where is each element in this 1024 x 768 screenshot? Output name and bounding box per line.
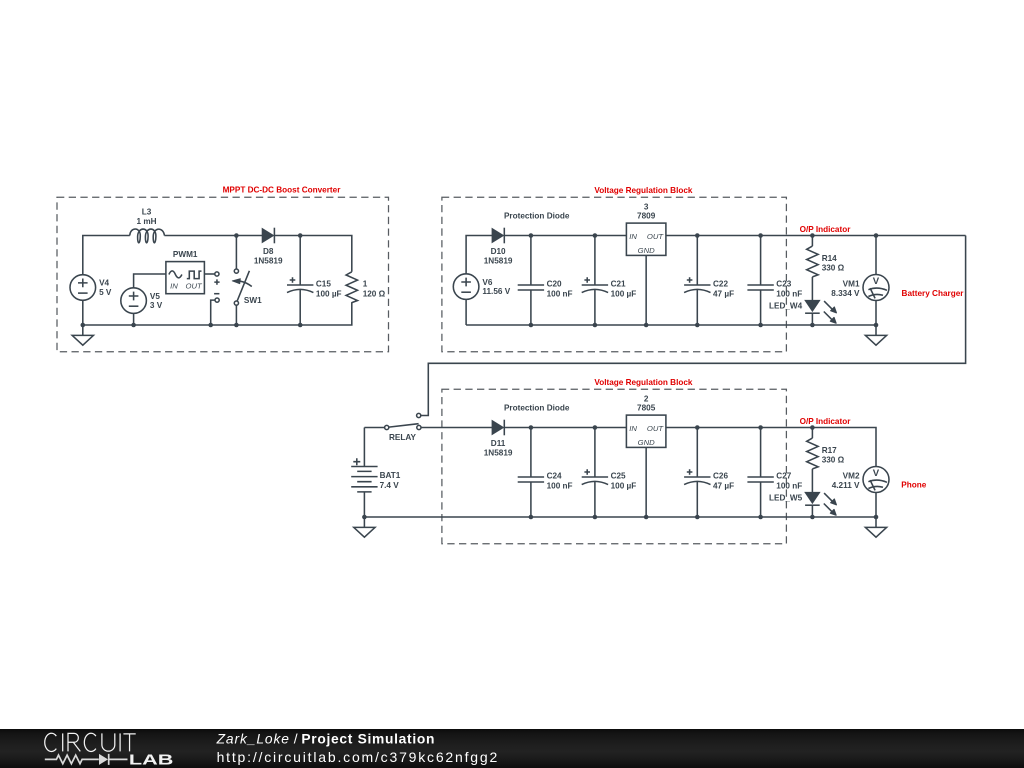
svg-text:120 Ω: 120 Ω bbox=[363, 289, 386, 298]
capacitor C15 bbox=[287, 236, 342, 326]
svg-text:8.334 V: 8.334 V bbox=[831, 289, 860, 298]
ground VM2 bbox=[865, 517, 886, 537]
svg-text:1N5819: 1N5819 bbox=[484, 257, 513, 266]
junction C27 top tap bbox=[758, 425, 763, 430]
wire bottom rail (lower block) bbox=[364, 516, 876, 518]
wire R17 top bbox=[811, 428, 813, 439]
svg-text:O/P Indicator: O/P Indicator bbox=[800, 417, 852, 426]
ground VM1 bbox=[865, 325, 886, 345]
junction R14 top tap bbox=[810, 233, 815, 238]
junction VM1 top tap bbox=[874, 233, 879, 238]
junction C26 bottom bbox=[695, 515, 700, 520]
svg-text:V: V bbox=[873, 468, 880, 479]
diode D10 bbox=[484, 228, 513, 266]
capacitor C27 bbox=[747, 428, 802, 518]
block border: Voltage Regulation Block (7805) bbox=[442, 389, 787, 543]
svg-text:OUT: OUT bbox=[647, 232, 665, 241]
svg-text:L3: L3 bbox=[142, 207, 152, 216]
capacitor C20 bbox=[518, 236, 573, 326]
svg-text:7.4 V: 7.4 V bbox=[380, 481, 400, 490]
svg-text:GND: GND bbox=[638, 246, 656, 255]
junction C23 bottom bbox=[758, 323, 763, 328]
wire D10 to 7809 IN bbox=[504, 235, 626, 237]
wire LED W5 bottom bbox=[811, 505, 813, 517]
junction VM2 bottom bbox=[874, 515, 879, 520]
wire bottom rail (top block) bbox=[466, 324, 876, 326]
junction BAT1 bottom bbox=[362, 515, 367, 520]
svg-text:7805: 7805 bbox=[637, 404, 656, 413]
svg-text:LED_W4: LED_W4 bbox=[769, 302, 803, 311]
svg-text:4.211 V: 4.211 V bbox=[832, 481, 860, 490]
capacitor C25 bbox=[582, 428, 637, 518]
svg-text:1N5819: 1N5819 bbox=[254, 257, 283, 266]
svg-text:C15: C15 bbox=[316, 279, 331, 288]
wire SW1 bottom bbox=[235, 305, 237, 325]
capacitor C21 bbox=[582, 236, 637, 326]
junction C23 top tap bbox=[758, 233, 763, 238]
voltage source V5 bbox=[121, 288, 163, 314]
wire V4 bottom bbox=[82, 300, 84, 325]
svg-text:3: 3 bbox=[644, 202, 649, 211]
svg-text:1: 1 bbox=[363, 279, 368, 288]
svg-text:VM2: VM2 bbox=[843, 471, 860, 480]
svg-text:Phone: Phone bbox=[901, 481, 926, 490]
svg-text:1 mH: 1 mH bbox=[136, 217, 156, 226]
wire D8 to resistor bbox=[274, 236, 351, 272]
svg-text:100 µF: 100 µF bbox=[611, 289, 637, 298]
svg-text:Protection Diode: Protection Diode bbox=[504, 212, 570, 221]
regulator U-7809 bbox=[626, 202, 666, 255]
junction C24 bottom bbox=[529, 515, 534, 520]
regulator U-7805 bbox=[626, 394, 666, 447]
capacitor C22 bbox=[684, 236, 734, 326]
wire D11 to 7805 IN bbox=[504, 427, 626, 429]
svg-text:LED_W5: LED_W5 bbox=[769, 494, 803, 503]
voltmeter VM1 bbox=[831, 275, 889, 301]
svg-text:GND: GND bbox=[638, 438, 656, 447]
wire 7805 OUT rail to VM2 bbox=[666, 428, 876, 467]
svg-text:Protection Diode: Protection Diode bbox=[504, 404, 570, 413]
svg-text:D10: D10 bbox=[491, 247, 506, 256]
junction C22 bottom bbox=[695, 323, 700, 328]
svg-text:Zark_Loke / Project Simulation: Zark_Loke / Project Simulation bbox=[216, 732, 436, 747]
junction C22 top tap bbox=[695, 233, 700, 238]
svg-text:C23: C23 bbox=[776, 279, 791, 288]
ground BAT1 bbox=[354, 517, 375, 537]
junction C25 top tap bbox=[593, 425, 598, 430]
battery BAT1 bbox=[351, 458, 401, 492]
svg-text:IN: IN bbox=[629, 232, 637, 241]
svg-text:47 µF: 47 µF bbox=[713, 481, 734, 490]
svg-text:IN: IN bbox=[629, 424, 637, 433]
junction C21 bottom bbox=[593, 323, 598, 328]
svg-text:100 nF: 100 nF bbox=[776, 481, 802, 490]
voltage source V6 bbox=[453, 274, 510, 300]
diode D8 bbox=[254, 228, 283, 266]
led W5 bbox=[769, 492, 836, 515]
svg-text:100 µF: 100 µF bbox=[316, 289, 342, 298]
wire VM2 bottom bbox=[875, 493, 877, 518]
wire 7805 GND pin bbox=[645, 447, 647, 517]
wire L3 to D8 bbox=[164, 235, 262, 237]
junction C15 bottom bbox=[298, 323, 303, 328]
junction 7809 GND bbox=[644, 323, 649, 328]
terminal PWM1 + output bbox=[214, 272, 219, 285]
capacitor C23 bbox=[747, 236, 802, 326]
ground MPPT bbox=[72, 325, 93, 345]
logo diode glyph bbox=[99, 754, 108, 765]
wire SW1 top bbox=[235, 236, 237, 270]
footer bar bbox=[0, 729, 1024, 768]
led W4 bbox=[769, 300, 836, 323]
junction PWM1 minus bbox=[208, 323, 213, 328]
svg-text:1N5819: 1N5819 bbox=[484, 449, 513, 458]
wire R14 to LED W4 bbox=[811, 277, 813, 301]
svg-text:SW1: SW1 bbox=[244, 296, 262, 305]
svg-text:O/P Indicator: O/P Indicator bbox=[800, 225, 852, 234]
svg-text:R17: R17 bbox=[822, 446, 837, 455]
wire relay to D11 bbox=[421, 427, 492, 429]
wire V6 top to D10 bbox=[466, 236, 492, 274]
junction V5 bottom bbox=[131, 323, 136, 328]
junction R17 top tap bbox=[810, 425, 815, 430]
wire R14 top bbox=[811, 236, 813, 247]
junction C20 top tap bbox=[529, 233, 534, 238]
wire V5 to PWM1 input bbox=[134, 274, 166, 288]
svg-text:100 nF: 100 nF bbox=[547, 481, 573, 490]
logo resistor glyph bbox=[45, 755, 99, 764]
resistor 1 (120 Ω) bbox=[346, 272, 386, 303]
junction C20 bottom bbox=[529, 323, 534, 328]
wire VM1 bottom bbox=[875, 301, 877, 326]
block border: MPPT DC-DC Boost Converter bbox=[57, 197, 389, 351]
svg-text:100 µF: 100 µF bbox=[611, 481, 637, 490]
svg-text:11.56 V: 11.56 V bbox=[482, 287, 510, 296]
wire R17 to LED W5 bbox=[811, 469, 813, 493]
svg-text:100 nF: 100 nF bbox=[547, 289, 573, 298]
svg-text:Voltage Regulation Block: Voltage Regulation Block bbox=[594, 186, 693, 195]
switch SW1 bbox=[232, 269, 262, 305]
junction C15 top tap bbox=[298, 233, 303, 238]
resistor R17 bbox=[807, 438, 845, 469]
svg-text:Battery Charger: Battery Charger bbox=[902, 289, 965, 298]
svg-text:R14: R14 bbox=[822, 254, 837, 263]
junction V4 bottom bbox=[81, 323, 86, 328]
svg-text:C26: C26 bbox=[713, 471, 728, 480]
wire bottom rail MPPT bbox=[83, 302, 352, 325]
block border: Voltage Regulation Block (7809) bbox=[442, 197, 787, 351]
svg-text:VM1: VM1 bbox=[843, 279, 860, 288]
pwm voltage source PWM1 bbox=[166, 250, 205, 294]
svg-text:330 Ω: 330 Ω bbox=[822, 456, 845, 465]
wire VM1 top bbox=[875, 236, 877, 275]
svg-text:C20: C20 bbox=[547, 279, 562, 288]
wire BAT1 bottom bbox=[363, 492, 365, 517]
wire V5 bottom bbox=[133, 313, 135, 325]
svg-text:OUT: OUT bbox=[185, 282, 203, 291]
diode D11 bbox=[484, 420, 513, 458]
svg-text:47 µF: 47 µF bbox=[713, 289, 734, 298]
svg-text:C21: C21 bbox=[611, 279, 626, 288]
svg-text:C24: C24 bbox=[547, 471, 562, 480]
voltage source V4 bbox=[70, 275, 112, 301]
svg-text:D11: D11 bbox=[491, 439, 506, 448]
svg-text:5 V: 5 V bbox=[99, 288, 112, 297]
inductor L3 bbox=[130, 207, 165, 242]
junction LED W5 bottom bbox=[810, 515, 815, 520]
junction C21 top tap bbox=[593, 233, 598, 238]
wire V6 bottom bbox=[465, 299, 467, 325]
wire BAT1 to relay bbox=[364, 427, 384, 429]
svg-text:100 nF: 100 nF bbox=[776, 289, 802, 298]
svg-text:C25: C25 bbox=[611, 471, 626, 480]
svg-text:330 Ω: 330 Ω bbox=[822, 264, 845, 273]
wire interconnect to relay bbox=[421, 236, 966, 416]
svg-text:MPPT DC-DC Boost Converter: MPPT DC-DC Boost Converter bbox=[223, 186, 342, 195]
svg-text:RELAY: RELAY bbox=[389, 433, 417, 442]
svg-text:http://circuitlab.com/c379kc62: http://circuitlab.com/c379kc62nfgg2 bbox=[217, 749, 499, 765]
wire LED W4 bottom bbox=[811, 313, 813, 325]
svg-text:OUT: OUT bbox=[647, 424, 665, 433]
svg-text:PWM1: PWM1 bbox=[173, 250, 198, 259]
svg-text:V: V bbox=[873, 276, 880, 287]
capacitor C26 bbox=[684, 428, 734, 518]
junction SW1 bottom bbox=[234, 323, 239, 328]
junction SW1 top tap bbox=[234, 233, 239, 238]
wire BAT1 top bbox=[363, 428, 365, 467]
junction 7805 GND bbox=[644, 515, 649, 520]
resistor R14 bbox=[807, 246, 845, 277]
svg-text:V5: V5 bbox=[150, 292, 160, 301]
svg-text:3 V: 3 V bbox=[150, 301, 163, 310]
capacitor C24 bbox=[518, 428, 573, 518]
wire V4 top to L3 bbox=[83, 236, 130, 275]
svg-text:Voltage Regulation Block: Voltage Regulation Block bbox=[594, 378, 693, 387]
svg-text:V4: V4 bbox=[99, 279, 109, 288]
svg-text:7809: 7809 bbox=[637, 212, 656, 221]
voltmeter VM2 bbox=[832, 467, 889, 493]
junction C25 bottom bbox=[593, 515, 598, 520]
logo CIRCUIT wordmark bbox=[45, 733, 136, 751]
svg-text:IN: IN bbox=[170, 282, 178, 291]
svg-text:V6: V6 bbox=[482, 278, 492, 287]
junction LED W4 bottom bbox=[810, 323, 815, 328]
svg-text:D8: D8 bbox=[263, 247, 274, 256]
junction VM1 bottom bbox=[874, 323, 879, 328]
wire PWM1 minus to rail bbox=[211, 300, 215, 325]
wire PWM1 output bbox=[204, 273, 214, 275]
svg-text:BAT1: BAT1 bbox=[380, 471, 401, 480]
terminal PWM1 - output bbox=[214, 294, 219, 303]
junction C24 top tap bbox=[529, 425, 534, 430]
svg-text:C27: C27 bbox=[776, 471, 791, 480]
switch RELAY bbox=[385, 413, 421, 441]
junction C27 bottom bbox=[758, 515, 763, 520]
wire 7809 OUT rail bbox=[666, 235, 966, 237]
svg-text:2: 2 bbox=[644, 394, 649, 403]
wire 7809 GND pin bbox=[645, 255, 647, 325]
svg-text:C22: C22 bbox=[713, 279, 728, 288]
svg-text:LAB: LAB bbox=[129, 752, 174, 768]
junction C26 top tap bbox=[695, 425, 700, 430]
